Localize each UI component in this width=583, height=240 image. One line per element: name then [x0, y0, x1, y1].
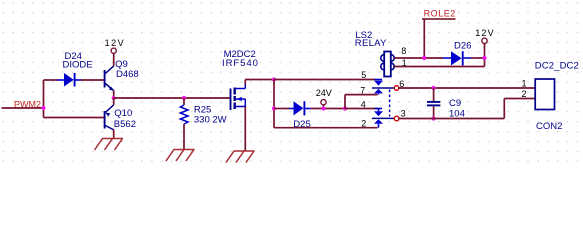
junction R25 tap	[182, 96, 186, 100]
relay contact 2 arm	[372, 118, 394, 127]
svg-text:12V: 12V	[475, 28, 495, 38]
junction 12V D26 node	[482, 56, 486, 60]
svg-text:Q10: Q10	[114, 108, 132, 119]
svg-text:B562: B562	[114, 119, 136, 130]
wire connector pin2	[504, 98, 535, 100]
resistor R25	[180, 98, 188, 150]
wire Q10 collector drop	[113, 130, 115, 139]
svg-text:C9: C9	[449, 98, 461, 109]
relay LS2 coil	[381, 52, 394, 77]
svg-text:2: 2	[522, 89, 527, 99]
diode D25	[274, 101, 345, 115]
wire Q10 emitter rise	[113, 98, 115, 105]
power 24V	[316, 88, 332, 109]
svg-text:CON2: CON2	[536, 121, 562, 132]
wire PWM2 vertical branch	[43, 80, 45, 118]
ground under R25	[166, 150, 195, 162]
junction D25 anode tap	[272, 106, 276, 110]
wire to D24 anode	[44, 79, 59, 81]
wire coil pin8	[394, 57, 443, 59]
wire mosfet source drop	[244, 107, 246, 152]
power 12V right	[475, 28, 495, 58]
relay mechanical link dashed	[389, 90, 391, 117]
svg-text:IRF540: IRF540	[222, 58, 259, 69]
svg-text:12V: 12V	[105, 38, 126, 48]
wire drain node vertical	[273, 80, 275, 128]
svg-text:RELAY: RELAY	[355, 38, 387, 49]
svg-text:3: 3	[401, 108, 406, 118]
wire pin3 net	[399, 118, 505, 120]
wire D24 cathode to Q9 base	[81, 79, 104, 81]
relay contact 1 stationary stub	[374, 80, 383, 86]
junction C9 bottom	[432, 116, 436, 120]
relay contact 2 stationary stub	[374, 109, 383, 117]
svg-text:8: 8	[401, 46, 406, 56]
junction pin7 split	[343, 106, 347, 110]
junction PWM2 node	[41, 106, 45, 110]
wire Q10 base	[44, 117, 104, 119]
svg-text:2: 2	[361, 119, 366, 129]
connector CON2	[535, 79, 554, 110]
ground under mosfet	[226, 151, 255, 163]
ground under Q10	[95, 139, 124, 151]
wire Q9 emitter drop	[113, 91, 115, 98]
wire PWM2 horizontal	[2, 107, 44, 109]
svg-text:1: 1	[522, 79, 527, 89]
wire drain top horizontal	[245, 79, 274, 81]
relay contact 1 pivot circle pin6	[394, 86, 399, 91]
svg-text:DC2_DC2: DC2_DC2	[535, 61, 579, 72]
svg-text:D468: D468	[116, 69, 139, 80]
wire pin7 riser	[344, 95, 346, 109]
junction drain node	[272, 77, 276, 81]
svg-text:DIODE: DIODE	[63, 59, 93, 70]
wire ROLE2 drop	[423, 19, 425, 58]
capacitor C9	[427, 88, 440, 119]
svg-text:24V: 24V	[316, 88, 332, 98]
diode D26	[443, 51, 484, 65]
wire pin6 net	[399, 87, 535, 89]
svg-text:5: 5	[361, 70, 366, 80]
junction ROLE2 node	[422, 56, 426, 60]
wire relay pin7	[345, 94, 378, 96]
relay contact 1 arm	[372, 88, 394, 95]
net label ROLE2 underline	[422, 18, 456, 20]
transistor Q9	[105, 66, 114, 91]
wire relay pin4	[345, 108, 378, 110]
junction C9 top	[432, 86, 436, 90]
wire drain node to relay pin5	[274, 79, 375, 81]
junction push-pull output	[112, 96, 116, 100]
svg-text:ROLE2: ROLE2	[424, 8, 456, 18]
wire coil pin1	[394, 66, 484, 68]
wire pin1 riser	[484, 58, 486, 67]
relay contact 2 pivot circle pin3	[394, 116, 399, 121]
svg-text:330 2W: 330 2W	[194, 114, 227, 125]
wire relay pin2	[274, 127, 378, 129]
wire pin3 riser	[503, 99, 505, 119]
svg-text:1: 1	[402, 58, 407, 68]
transistor Q10	[105, 105, 114, 130]
power 12V left	[105, 38, 126, 66]
svg-text:4: 4	[361, 100, 366, 110]
svg-text:D26: D26	[454, 40, 471, 51]
junction 24V tap	[321, 106, 325, 110]
mosfet M2DC2 IRF540	[231, 84, 246, 110]
svg-text:7: 7	[360, 85, 365, 95]
wire main gate drive	[114, 97, 230, 99]
wire mosfet drain up	[244, 80, 246, 85]
diode D24	[58, 73, 82, 87]
